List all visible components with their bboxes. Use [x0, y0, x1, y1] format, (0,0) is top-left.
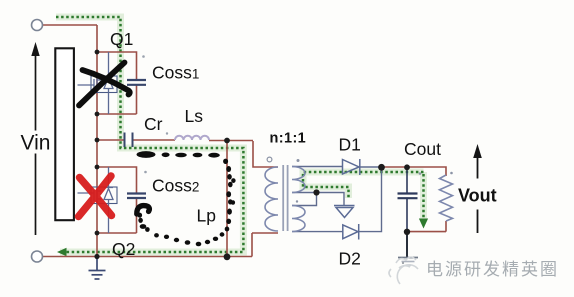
wire center tap to bottom winding [292, 193, 317, 206]
capacitor Coss1 plates [127, 80, 146, 85]
wire Q2 box [97, 167, 137, 233]
transformer secondary top winding [292, 167, 305, 193]
transformer secondary bottom winding [292, 206, 305, 232]
capacitor Cout [406, 167, 408, 232]
svg-text:Vout: Vout [458, 186, 497, 206]
node Cout top [404, 164, 410, 170]
label Vin [20, 29, 501, 269]
node Q1 source [95, 112, 100, 117]
wire output top [382, 167, 447, 232]
wire D1 cathode to node [360, 166, 382, 168]
polarity dot secondary [297, 159, 300, 162]
mosfet Q2 [78, 167, 118, 233]
diode D1 [343, 159, 360, 175]
label Vout [457, 179, 501, 210]
svg-text:Ls: Ls [185, 106, 204, 126]
black dotted loop: top blob and dashes [137, 151, 236, 246]
resistor load [440, 175, 453, 221]
red X over Q2 [79, 176, 112, 217]
svg-text:Q2: Q2 [112, 239, 135, 259]
node rectifier output [378, 164, 385, 171]
wire Lp branch vertical [226, 141, 228, 257]
ground main (bottom left) [89, 257, 106, 280]
wire secondary center tap [292, 193, 344, 206]
svg-text:Q1: Q1 [110, 29, 133, 49]
svg-text:Vin: Vin [21, 132, 51, 155]
inductor Ls [175, 136, 209, 140]
green arrow secondary [419, 219, 428, 229]
svg-text:电源研发精英圈: 电源研发精英圈 [426, 260, 559, 279]
svg-text:Lp: Lp [197, 206, 216, 226]
node Ls-Lp junction [224, 138, 230, 144]
Vin arrow [35, 55, 37, 235]
wire left rail [96, 25, 98, 257]
ground secondary center tap [334, 206, 355, 218]
wire D2 cathode up to node [359, 167, 382, 232]
green arrow primary loop [57, 248, 67, 256]
polarity dot load [419, 172, 422, 175]
marker dot near Coss2 [144, 171, 147, 174]
body diode Q2 [104, 167, 113, 233]
svg-text:n:1:1: n:1:1 [270, 131, 307, 147]
Vout arrow [477, 156, 479, 233]
node dots [94, 50, 410, 261]
svg-text:D2: D2 [339, 249, 361, 269]
transformer core [283, 165, 287, 231]
node center tap [313, 189, 319, 195]
wire top-left [43, 25, 446, 257]
node switch / Cr tap [95, 138, 100, 143]
node ground rail [94, 254, 99, 259]
body diode Q1 [104, 52, 113, 114]
wire Q1 box [97, 52, 137, 114]
wire Cr node to tank [97, 139, 253, 142]
black dotted loop: arrow hook [137, 206, 150, 214]
svg-text:Cout: Cout [404, 139, 441, 159]
wire secondary top lead to D1 [292, 166, 342, 168]
svg-text:D1: D1 [339, 135, 361, 155]
green dotted secondary path [303, 172, 424, 198]
marker dot near Ls [166, 132, 168, 134]
wire secondary bottom to D2 [292, 231, 343, 233]
node Q2 drain [95, 165, 100, 170]
node Q1 drain [95, 50, 100, 55]
wire primary bottom lead [252, 232, 278, 234]
watermark logo [389, 257, 418, 284]
polarity dot primary [267, 157, 272, 162]
wire bottom to transformer [251, 233, 253, 257]
mosfet Q1 [78, 52, 118, 114]
capacitor Coss2 plates [127, 194, 146, 199]
wire bottom [43, 256, 252, 258]
black dotted loop: right side [223, 159, 228, 164]
green dotted primary loop [56, 17, 243, 252]
diode D2 [343, 224, 359, 240]
wire secondary side [292, 167, 382, 232]
black dotted loop: bottom [220, 232, 225, 236]
terminal bottom-left [32, 251, 43, 262]
black dotted loop: tail up-left [145, 227, 150, 232]
black X over Q1 [79, 63, 130, 106]
ground output [398, 232, 418, 266]
node Cout bottom [404, 229, 410, 235]
transformer T1 primary winding [265, 167, 278, 231]
node Lp bottom [224, 253, 231, 260]
marker dot near Coss1 [142, 55, 145, 58]
node Q2 source [95, 231, 100, 236]
wire primary top lead [253, 141, 278, 167]
svg-text:Cr: Cr [144, 114, 163, 134]
capacitor Cr plates [125, 133, 133, 148]
green current path halo [56, 17, 424, 252]
terminal top-left [32, 20, 43, 31]
Vin source rectangle [55, 48, 74, 220]
